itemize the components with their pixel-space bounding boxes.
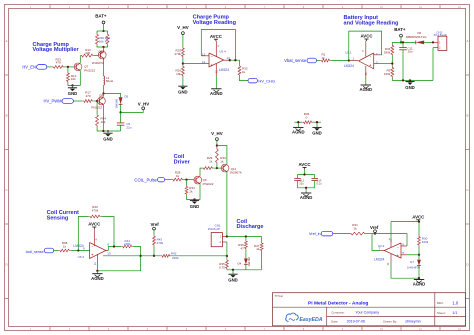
svg-text:GND: GND [312, 131, 321, 136]
wire Vbat_sense to R1 [317, 60, 321, 62]
svg-text:LM324: LM324 [219, 68, 229, 72]
ground GND (bridge) [316, 122, 318, 127]
resistor R44 10k [96, 101, 98, 114]
diode D7 1N4148TR [418, 255, 420, 260]
svg-text:B: B [5, 114, 7, 118]
svg-text:REV:: REV: [437, 301, 444, 305]
wire R6 to GND rail [392, 78, 433, 80]
ground GND (charge pump input) [72, 85, 74, 87]
op-amp U2.2 V+ pin [390, 239, 392, 247]
resistor R6 100k [391, 66, 394, 78]
svg-text:1k: 1k [242, 70, 246, 74]
op-amp U2.1 LM324 (mirrored) [359, 53, 374, 69]
wire BAT+ rail [392, 41, 416, 43]
resistor R22 4.7 [107, 31, 109, 33]
resistor R20 10k [96, 31, 98, 33]
transistor Q10 2N2907A PNP [98, 51, 106, 59]
svg-text:HV_PWM: HV_PWM [44, 99, 63, 104]
svg-text:Drawn By:: Drawn By: [383, 319, 397, 323]
svg-text:Vref: Vref [370, 225, 379, 230]
resistor R30 100k [418, 235, 421, 247]
wire sense output rail [141, 255, 161, 257]
svg-text:HV_CHG: HV_CHG [258, 78, 275, 83]
wire Q7 collector to R13 [79, 56, 81, 63]
wire R46 right to GND [313, 121, 321, 123]
svg-text:BAT+: BAT+ [394, 27, 406, 32]
wire Q8 collector to junction [102, 94, 104, 97]
svg-text:Date:: Date: [331, 319, 338, 323]
svg-text:AVCC: AVCC [88, 222, 101, 227]
svg-text:and Voltage Reading: and Voltage Reading [344, 21, 399, 27]
svg-text:1/1: 1/1 [452, 311, 457, 315]
ground GND (coil driver) [194, 199, 196, 200]
svg-text:BAT+: BAT+ [95, 14, 107, 19]
feedback wire U5.4 output to minus input [201, 30, 235, 61]
svg-text:Driver: Driver [174, 160, 191, 166]
svg-text:U5.4: U5.4 [219, 49, 226, 53]
resistor R46 0 ohm AGND-GND bridge [302, 121, 313, 124]
node Q8 collector / L1 / D5 junction [102, 92, 104, 94]
svg-text:AVCC: AVCC [210, 34, 223, 39]
wire U5.4 output to R32 [224, 59, 230, 61]
resistor R36 47 [245, 237, 247, 240]
svg-text:22u: 22u [126, 125, 131, 129]
analog ground AGND (Vref buffer) [418, 278, 420, 279]
svg-text:Voltage Multiplier: Voltage Multiplier [33, 47, 80, 53]
wire R14 and Q7 emitter to GND [68, 71, 80, 86]
op-amp U5.3 V- pin [96, 254, 98, 266]
capacitor C13 0.1u [314, 175, 316, 179]
wire U2.1 plus input to divider [374, 63, 378, 65]
resistor R34 390k (battery divider) [391, 42, 393, 44]
wire U5.3 V- to AGND [96, 266, 98, 271]
wire R32 to HV_CHG port [240, 77, 249, 81]
svg-text:470: 470 [56, 61, 61, 65]
svg-text:GND: GND [103, 136, 112, 141]
power pin V_HV output [121, 110, 144, 113]
svg-text:GND: GND [228, 277, 237, 282]
svg-text:47: 47 [240, 246, 244, 250]
resistor R31 1k [350, 232, 367, 235]
svg-text:AGND: AGND [413, 282, 426, 287]
svg-text:stimeymn: stimeymn [405, 319, 420, 323]
resistor R37 1k [261, 237, 263, 242]
svg-text:1k: 1k [209, 159, 213, 163]
wire coil top rail [227, 236, 262, 238]
wire R17 to Q8 base and R44 [94, 100, 98, 102]
wire Icoil_sense to R38 [54, 250, 59, 252]
op-amp U2.2 V- pin to rail [390, 254, 392, 262]
wire R34 and Q6 emitter to GND [187, 184, 201, 200]
pin stub U2.2 minus [401, 245, 407, 247]
resistor R29 1k [202, 167, 214, 170]
analog ground AGND (coil sense) [96, 271, 98, 274]
wire CN1 pin2 to sense node [226, 242, 228, 256]
svg-text:+: + [91, 253, 93, 257]
title block outline [273, 293, 466, 326]
svg-text:270k: 270k [174, 52, 181, 56]
wire Q8 emitter and R44 and C9 to GND rail [97, 127, 121, 131]
svg-text:10u: 10u [299, 182, 304, 186]
wire R42 to coil discharge sense node [171, 255, 227, 257]
svg-text:Your Company: Your Company [355, 311, 379, 315]
wire junction to D5 [104, 94, 121, 98]
resistor R13 220 [80, 54, 94, 57]
svg-text:Vref: Vref [150, 222, 159, 227]
svg-text:XH-2.54-2P: XH-2.54-2P [434, 34, 447, 37]
wire U5.3 output jog [106, 250, 109, 252]
wire U2.2 plus to R30/D7 node [407, 254, 419, 256]
svg-text:AVCC: AVCC [412, 214, 425, 219]
svg-text:470k: 470k [157, 241, 164, 245]
wire divider to op-amp plus input [183, 63, 209, 65]
wire Vref_in to R31 [333, 233, 350, 235]
wire V_HV to Q11 emitter [217, 146, 227, 164]
op-amp U5.4 V- to AGND [215, 64, 217, 76]
svg-text:1k: 1k [176, 174, 180, 178]
capacitor C12 10u [297, 175, 299, 179]
capacitor C9 22u [120, 112, 122, 123]
svg-text:Icoil_sense: Icoil_sense [26, 250, 44, 254]
svg-text:Vbat_sense: Vbat_sense [284, 58, 307, 63]
svg-text:D7: D7 [410, 260, 414, 264]
svg-text:+: + [211, 63, 213, 67]
svg-text:Discharge: Discharge [237, 224, 264, 230]
ground GND (divider) [182, 77, 184, 86]
svg-text:10k: 10k [176, 72, 181, 76]
wire R33 to Q11 base [216, 164, 218, 168]
svg-text:2019-07-06: 2019-07-06 [347, 319, 365, 323]
node battery divider junction [391, 56, 393, 66]
svg-text:V_HV: V_HV [211, 131, 223, 136]
wire U2.2 output feedback to Vref node [380, 250, 384, 252]
node divider junction [182, 58, 184, 65]
wire D6 to CN2 pin 1 [424, 41, 433, 43]
EasyEDA logo [286, 313, 298, 321]
svg-text:COIL_Pulse: COIL_Pulse [134, 177, 157, 182]
svg-text:LM324: LM324 [344, 64, 354, 68]
resistor R34 1k (coil driver) [186, 180, 188, 185]
op-amp U2.2 LM324 (mirrored) [384, 243, 401, 258]
transistor Q11 2N2907A PNP [221, 164, 229, 172]
svg-text:1k: 1k [189, 189, 193, 193]
wire R1 to U2.1 output node [331, 60, 349, 62]
net port HV_CHG [248, 78, 257, 83]
wire AVCC rail [418, 221, 420, 223]
svg-text:D5: D5 [124, 94, 128, 98]
resistor R41 220k [121, 245, 133, 248]
ground GND (coil discharge) [232, 270, 234, 274]
svg-text:+: + [397, 254, 399, 258]
svg-text:Q10: Q10 [99, 50, 105, 54]
svg-text:A: A [466, 39, 468, 43]
svg-text:100k: 100k [384, 72, 391, 76]
svg-text:390k: 390k [384, 50, 391, 54]
resistor R42 220k [161, 254, 172, 257]
svg-text:MBR0520LT1G: MBR0520LT1G [406, 35, 427, 39]
svg-text:0.75: 0.75 [219, 266, 225, 270]
svg-text:10: 10 [107, 251, 111, 255]
resistor R14 10k [67, 67, 69, 72]
svg-text:220k: 220k [124, 242, 131, 246]
svg-text:AVCC: AVCC [360, 34, 373, 39]
capacitor C11 10u [402, 42, 404, 47]
svg-text:2510S-2P: 2510S-2P [208, 227, 220, 231]
svg-text:470: 470 [85, 94, 90, 98]
svg-text:1k: 1k [63, 244, 67, 248]
op-amp U5.3 LM324 [90, 243, 106, 259]
svg-text:1N4148: 1N4148 [247, 257, 251, 267]
transistor Q8 PN2222 NPN [98, 97, 106, 105]
inductor L1 50uH [104, 76, 105, 85]
svg-text:PI Metal Detector - Analog: PI Metal Detector - Analog [308, 300, 368, 306]
svg-text:Sheet:: Sheet: [437, 311, 446, 315]
svg-text:470k: 470k [92, 208, 99, 212]
plus input rail U5.3 [103, 255, 141, 257]
svg-text:Voltage Reading: Voltage Reading [193, 20, 237, 26]
wire BAT+ to R20/R22 split [103, 24, 105, 31]
svg-text:0.1u: 0.1u [317, 182, 323, 186]
resistor R35 0.75 [226, 256, 228, 259]
resistor R32 1k [238, 65, 241, 77]
transistor Q7 PN2222 NPN [74, 63, 82, 71]
op-amp U5.4 LM324 [215, 41, 217, 57]
resistor R25 270k [182, 47, 185, 59]
svg-text:4.7: 4.7 [105, 39, 110, 43]
svg-text:2N2907A: 2N2907A [92, 61, 104, 65]
wire R41 to output rail [97, 247, 140, 271]
wire discharge bottom rail to GND [227, 269, 262, 271]
svg-text:PN2222: PN2222 [84, 68, 95, 72]
svg-text:1k: 1k [322, 56, 326, 60]
resistor R28 1k [172, 178, 184, 181]
svg-text:1N4148TR: 1N4148TR [407, 266, 420, 270]
svg-text:LM324: LM324 [374, 257, 384, 261]
svg-text:+: + [369, 64, 371, 68]
title block dividers [273, 306, 466, 308]
feedback wire U2.1 output to minus input [374, 54, 380, 56]
svg-text:HV_EN: HV_EN [22, 64, 36, 69]
resistor R33 1k [216, 148, 219, 165]
svg-text:AGND: AGND [292, 130, 305, 135]
svg-text:10k: 10k [99, 39, 104, 43]
svg-text:A: A [5, 39, 7, 43]
resistor R43 470k [153, 235, 156, 247]
wire R46 left to AGND [294, 121, 302, 123]
svg-text:GND: GND [405, 85, 414, 90]
wire R31 to Vref node [366, 233, 372, 235]
analog ground AGND (decoupling) [301, 192, 311, 194]
wire AVCC to C12 and C13 [298, 174, 315, 176]
diode D6 MBR0520LT1G [416, 41, 424, 45]
resistor R26 10k [182, 65, 185, 77]
svg-text:220k: 220k [172, 256, 179, 260]
svg-text:10k: 10k [71, 77, 76, 81]
svg-text:TITLE:: TITLE: [275, 294, 284, 298]
svg-text:2N2907A: 2N2907A [230, 171, 242, 175]
svg-text:D4: D4 [237, 261, 241, 265]
wire R30 to node [418, 247, 420, 255]
wire R28 to Q6 base and R34 [184, 179, 194, 181]
svg-text:AGND: AGND [210, 91, 223, 96]
wire HV_PWM to R17 [73, 100, 82, 102]
wire R20/R22 rejoin [97, 46, 108, 48]
svg-text:AGND: AGND [300, 195, 313, 200]
pin stub minus input U5.4 [201, 55, 209, 57]
diode D4 1N4148 [245, 250, 247, 259]
svg-text:U5.3: U5.3 [78, 255, 85, 259]
wire Q6 collector to R29 [200, 168, 202, 176]
resistor R17 470 [82, 100, 94, 103]
wire CN2 pin 2 to GND rail [432, 48, 434, 81]
svg-text:100k: 100k [422, 240, 429, 244]
wire caps to AGND [298, 187, 315, 189]
ground GND (charge pump output) [107, 131, 109, 133]
analog ground AGND (bridge) [297, 122, 299, 127]
svg-text:GND: GND [178, 89, 187, 94]
svg-text:PN2222: PN2222 [203, 182, 214, 186]
wire D5 to V_HV node [120, 104, 122, 112]
svg-text:50uH: 50uH [106, 79, 113, 83]
svg-text:V_HV: V_HV [138, 102, 150, 107]
svg-text:GND: GND [68, 91, 77, 96]
resistor R1 1k [320, 59, 331, 62]
svg-text:EasyEDA: EasyEDA [299, 317, 322, 323]
svg-text:220: 220 [85, 51, 90, 55]
connector CN1 XH-2.54-2P (coil) [211, 233, 222, 247]
svg-text:AGND: AGND [91, 276, 104, 281]
svg-text:1k: 1k [220, 159, 224, 163]
pin stub U2.2 plus [401, 254, 407, 256]
svg-text:AVCC: AVCC [298, 162, 311, 167]
svg-text:1k: 1k [353, 226, 357, 230]
wire R38 to U5.3 minus input [71, 250, 90, 252]
frame row ticks left and right [5, 39, 470, 299]
resistor R40 470k [89, 215, 102, 218]
connector CN2 XH-2.54-2P [438, 36, 447, 50]
pin stub U2.1 output [349, 60, 358, 62]
transistor Q6 PN2222 NPN [194, 176, 202, 184]
svg-text:Company:: Company: [331, 310, 345, 314]
svg-text:10u: 10u [407, 50, 412, 54]
wire Vref node to U2.2 minus input [372, 234, 407, 246]
diode D5 1N4148 [119, 97, 123, 104]
svg-text:1N4148: 1N4148 [114, 98, 118, 108]
svg-text:Sensing: Sensing [47, 215, 69, 221]
svg-text:Vref_in: Vref_in [309, 232, 321, 236]
wire R23 to Q7 base and R14 [65, 66, 74, 68]
wire D7 to AGND rail [418, 266, 420, 279]
op-amp U2.1 V- to AGND [365, 66, 367, 77]
wire R13 to Q10 base [94, 55, 98, 57]
feedback wire with R40 [78, 217, 88, 251]
svg-text:AGND: AGND [360, 87, 373, 92]
svg-text:GND: GND [190, 204, 199, 209]
svg-text:1.0: 1.0 [452, 301, 458, 306]
svg-text:1k: 1k [256, 247, 260, 251]
svg-text:B: B [466, 114, 468, 118]
resistor R38 1k [58, 249, 70, 252]
resistor R23 470 [52, 66, 65, 69]
svg-text:12: 12 [202, 60, 206, 64]
svg-text:V_HV: V_HV [177, 25, 189, 30]
wire HV_EN to R23 [47, 66, 52, 68]
ground GND (battery) [409, 79, 411, 81]
node CN1 pin1 / coil drive junction [226, 235, 228, 237]
wire COIL_Pulse to R28 [165, 179, 172, 181]
